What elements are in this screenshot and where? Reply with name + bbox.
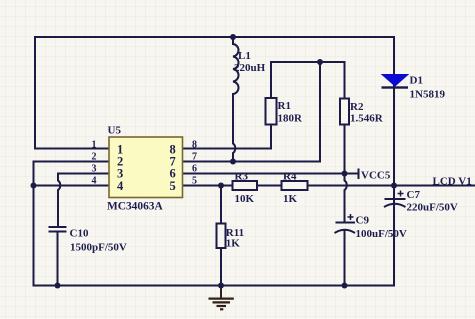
node junction dots [31,34,398,289]
svg-text:5: 5 [170,179,176,193]
svg-text:3: 3 [92,164,97,175]
capacitor C10 [49,227,67,232]
node R11/ground stem at rail [218,283,224,289]
wire pin 7 row up to top node (junction x=320) [183,62,320,162]
wire left rail lower with pin 2 [34,162,110,286]
wire pin 6 row to VCC5 [183,173,359,175]
node R2 to pin 6 / VCC5 [342,171,348,177]
resistor R3 [233,181,258,190]
svg-text:L1: L1 [238,50,251,62]
svg-text:C10: C10 [70,228,89,240]
svg-text:LCD V1: LCD V1 [433,176,472,188]
wire R4 to LCD V1 output [308,185,475,187]
inductor L1 [233,44,239,94]
svg-text:1.546R: 1.546R [350,113,384,125]
svg-text:4: 4 [92,176,97,187]
svg-text:U5: U5 [108,125,122,137]
wire pin 4 to left rail [34,185,110,187]
resistor R11 [217,224,226,249]
svg-text:220uF/50V: 220uF/50V [407,202,458,214]
capacitor C9 [335,214,356,233]
wire C7 top stub [393,186,395,199]
svg-text:VCC5: VCC5 [361,170,391,182]
svg-text:R1: R1 [278,100,291,112]
node LCD V1 at D1 column [391,183,397,189]
wire top rail [35,36,394,38]
svg-text:MC34063A: MC34063A [107,201,163,213]
node L1 top on rail [230,34,236,40]
svg-text:1K: 1K [283,193,298,205]
resistor R1 [266,98,277,125]
node top of pin7 riser [317,59,323,65]
svg-text:R4: R4 [283,171,297,183]
node C10 at ground rail [55,283,61,289]
svg-text:C7: C7 [407,189,421,201]
ground symbol [209,286,234,310]
svg-text:1K: 1K [226,238,241,250]
svg-text:1: 1 [92,140,97,151]
diode D1 [382,75,409,89]
wire pin5 junction down through R11 to ground [220,186,222,286]
wire L1 bottom to pin 7 (hops pin 8 wire) [233,94,235,162]
wire R1 top to top node [271,62,345,99]
svg-text:8: 8 [192,140,197,151]
net flag VCC5 [358,169,360,180]
svg-text:6: 6 [192,164,197,175]
capacitor C7 [384,191,406,208]
svg-text:220uH: 220uH [234,62,266,74]
svg-text:R3: R3 [235,171,249,183]
resistor R4 [282,181,308,190]
wire C10 bottom to ground rail [57,233,59,286]
wire left rail upper (pin 1 to top) [35,37,109,149]
wire pin 5 row to R3 [183,185,233,187]
wire pin 3 down to C10 (hops pin4 wire) [58,174,109,227]
svg-text:4: 4 [117,179,124,193]
IC U5 MC34063A [109,137,183,198]
svg-text:180R: 180R [278,113,304,125]
svg-text:10K: 10K [235,193,255,205]
wire C9 bottom to ground rail [344,230,346,286]
node L1 to pin 7 [230,159,236,165]
svg-text:C9: C9 [356,215,370,227]
wire C7 bottom stub [393,204,395,286]
node C9 at ground rail [342,283,348,289]
wire R3 to R4 [257,185,282,187]
node pin4/pin2 left rail [31,183,37,189]
svg-text:1N5819: 1N5819 [410,89,446,101]
wire L1 top stub [232,37,234,44]
svg-text:100uF/50V: 100uF/50V [356,228,407,240]
wire right rail (D1 column) [393,37,395,286]
wire R2 bottom to pin6 junction then C9 (hops pin5 wire) [345,125,347,222]
svg-text:1500pF/50V: 1500pF/50V [70,242,127,254]
resistor R2 [340,99,349,125]
node pin 5 to R11 [218,183,224,189]
wire bottom rail (ground net) [34,285,395,287]
svg-text:5: 5 [192,176,197,187]
svg-text:2: 2 [92,152,97,163]
svg-text:R2: R2 [350,101,364,113]
svg-text:7: 7 [192,152,197,163]
wire pin 8 row to R1 bottom [183,125,271,149]
svg-text:D1: D1 [410,75,423,87]
